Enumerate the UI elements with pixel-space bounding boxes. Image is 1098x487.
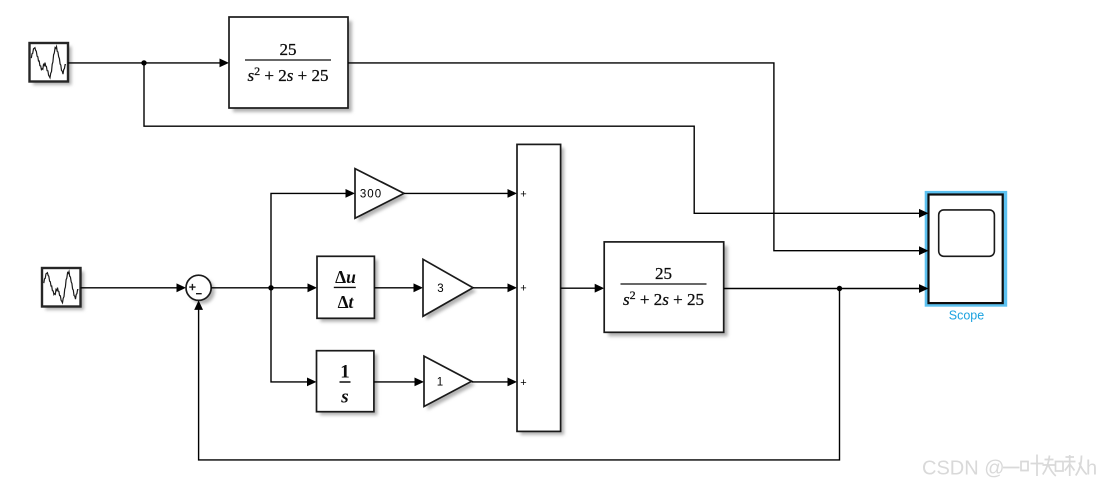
arrowhead into Integrator bbox=[307, 378, 317, 387]
watermark CJK qiu bbox=[1064, 455, 1087, 476]
watermark CJK zhi bbox=[1043, 456, 1064, 477]
wire branch Signal1 to Scope input1 bbox=[144, 63, 920, 213]
wire Derivative to Gain3 bbox=[374, 287, 414, 289]
derivative block Derivative shadow bbox=[321, 260, 378, 322]
svg-text:Δu: Δu bbox=[335, 267, 356, 287]
integrator block Integrator bbox=[317, 351, 374, 412]
arrowhead into Sum left bbox=[177, 283, 187, 292]
gain block Gain300 shadow bbox=[359, 172, 408, 222]
svg-text:1: 1 bbox=[340, 362, 350, 383]
wire branch up to Gain300 bbox=[271, 193, 347, 287]
gain block Gain1 shadow bbox=[428, 360, 476, 410]
svg-text:CSDN @: CSDN @ bbox=[922, 458, 1005, 480]
scope block Scope selection frame bbox=[925, 191, 1008, 307]
arrowhead into TF2 bbox=[595, 284, 605, 293]
source block Signal1 shadow bbox=[33, 47, 72, 86]
source block Signal2 shadow bbox=[46, 272, 85, 311]
svg-text:300: 300 bbox=[360, 189, 382, 201]
arrowhead feedback into Sum bottom bbox=[194, 300, 203, 310]
wire Sum to Derivative bbox=[211, 287, 308, 289]
watermark CJK yi bbox=[1003, 467, 1020, 469]
wire SumBlock to TF2 bbox=[561, 287, 596, 289]
sum block Sum shadow bbox=[190, 279, 215, 304]
arrowhead into Gain3 bbox=[414, 283, 424, 292]
sum block SumBlock bbox=[517, 144, 561, 431]
transfer function TF1 shadow bbox=[233, 21, 352, 112]
gain block Gain3 shadow bbox=[427, 263, 477, 320]
scope block Scope bbox=[929, 195, 1003, 304]
svg-text:25: 25 bbox=[280, 40, 297, 59]
arrowhead into Gain300 bbox=[346, 189, 356, 198]
derivative block Derivative bbox=[317, 256, 374, 318]
svg-text:Scope: Scope bbox=[949, 308, 984, 322]
wire Gain3 to SumBlock input2 bbox=[473, 287, 509, 289]
wire TF2 to Scope input3 bbox=[724, 288, 920, 290]
arrowhead into SumBlock input3 bbox=[508, 378, 518, 387]
arrowhead into Scope input2 bbox=[919, 246, 929, 255]
wire Gain300 to SumBlock input1 bbox=[404, 192, 509, 194]
arrowhead into Gain1 bbox=[415, 378, 425, 387]
svg-text:25: 25 bbox=[655, 264, 672, 283]
arrowhead into Scope input3 bbox=[919, 284, 929, 293]
source block Signal2 bbox=[42, 268, 81, 307]
svg-text:s2 + 2s + 25: s2 + 2s + 25 bbox=[248, 64, 329, 85]
svg-text:Δt: Δt bbox=[338, 292, 355, 312]
arrowhead into SumBlock input1 bbox=[508, 189, 518, 198]
svg-text:+: + bbox=[520, 377, 526, 389]
svg-text:h: h bbox=[1086, 458, 1097, 480]
svg-text:s2 + 2s + 25: s2 + 2s + 25 bbox=[623, 288, 704, 309]
wire Integrator to Gain1 bbox=[374, 381, 416, 383]
junction node on TF2 output bbox=[837, 286, 842, 291]
wire branch down to Integrator bbox=[271, 288, 308, 382]
arrowhead into TF1 bbox=[220, 59, 230, 68]
source block Signal1 bbox=[30, 43, 69, 82]
gain block Gain300 bbox=[355, 169, 404, 219]
arrowhead into Scope input1 bbox=[919, 209, 929, 218]
transfer function TF2 bbox=[604, 242, 724, 332]
wire Gain1 to SumBlock input3 bbox=[472, 381, 509, 383]
sum block Sum bbox=[186, 275, 211, 300]
arrowhead into Derivative bbox=[308, 283, 318, 292]
wire TF1 to Scope input2 bbox=[348, 63, 920, 251]
junction node on Signal1 wire bbox=[141, 60, 146, 65]
svg-text:s: s bbox=[340, 387, 348, 408]
wire Signal1 to TF1 bbox=[68, 62, 221, 64]
watermark CJK ye bbox=[1021, 455, 1044, 477]
transfer function TF2 shadow bbox=[608, 246, 728, 336]
svg-text:+: + bbox=[520, 188, 526, 200]
svg-text:1: 1 bbox=[437, 377, 443, 389]
wire Signal2 to Sum bbox=[81, 287, 178, 289]
arrowhead into SumBlock input2 bbox=[508, 283, 518, 292]
svg-text:+: + bbox=[520, 283, 526, 295]
gain block Gain3 bbox=[423, 259, 473, 316]
svg-text:3: 3 bbox=[437, 283, 443, 295]
wire feedback TF2 output to Sum minus input bbox=[199, 289, 840, 460]
gain block Gain1 bbox=[424, 356, 472, 406]
transfer function TF1 bbox=[229, 17, 348, 108]
integrator block Integrator shadow bbox=[320, 354, 377, 415]
sum block SumBlock shadow bbox=[521, 148, 565, 435]
junction node after Sum bbox=[268, 285, 273, 290]
